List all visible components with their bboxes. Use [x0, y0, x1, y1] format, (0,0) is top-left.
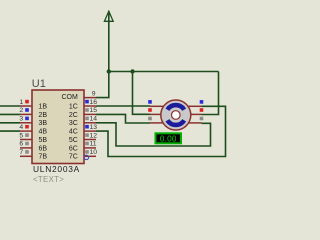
- motor angle display: [156, 133, 182, 143]
- pin 7B stub: [20, 155, 32, 157]
- wire 3C to motor lower-right: [96, 123, 211, 146]
- state square motor upper-left (blue): [148, 100, 152, 104]
- stepper motor M1 pin stub lower-left: [150, 122, 165, 124]
- svg-text:5C: 5C: [69, 137, 78, 144]
- state square motor middle-right (red): [200, 108, 204, 112]
- pin 1C stub: [84, 105, 96, 107]
- wire 1C to motor upper-left: [96, 105, 150, 107]
- svg-text:3C: 3C: [69, 120, 78, 127]
- state square pin 12 (grey): [85, 133, 89, 137]
- pin COM stub: [84, 97, 96, 99]
- wire 4C to motor upper-right: [96, 106, 226, 156]
- wire rail to motor right center tap: [202, 72, 219, 115]
- svg-text:2B: 2B: [39, 112, 48, 119]
- state square input pin 6 (grey): [25, 142, 29, 146]
- state square input pin 1 (red): [25, 100, 29, 104]
- svg-text:1B: 1B: [39, 103, 48, 110]
- wire 2C to motor lower-left: [96, 114, 150, 123]
- svg-text:11: 11: [90, 141, 97, 148]
- state square input pin 2 (blue): [25, 108, 29, 112]
- pin 2C stub: [84, 113, 96, 115]
- state square pin 10 (grey): [85, 150, 89, 154]
- state square pin 13 (blue): [85, 125, 89, 129]
- chip U1 body: [32, 90, 84, 164]
- svg-text:4B: 4B: [39, 129, 48, 136]
- state square motor lower-left (grey): [148, 117, 152, 121]
- state square input pin 4 (red): [25, 125, 29, 129]
- svg-text:10: 10: [90, 149, 98, 156]
- svg-text:2C: 2C: [69, 112, 78, 119]
- node junction rail drop: [130, 69, 134, 73]
- svg-text:6: 6: [19, 141, 23, 148]
- stepper motor M1 pin stub lower-right: [187, 122, 202, 124]
- pin 3B stub: [20, 122, 32, 124]
- state square motor lower-right (grey): [200, 117, 204, 121]
- state square pin 14 (grey): [85, 117, 89, 121]
- svg-text:9: 9: [92, 90, 96, 97]
- pin 5C stub: [84, 139, 96, 141]
- stepper motor M1 pin stub upper-right: [187, 105, 202, 107]
- state square input pin 3 (blue): [25, 117, 29, 121]
- stepper motor M1 pin stub upper-left: [150, 105, 165, 107]
- pin 3C stub: [84, 122, 96, 124]
- svg-text:3B: 3B: [39, 120, 48, 127]
- svg-text:COM: COM: [61, 94, 78, 101]
- wire rail to motor left center tap: [133, 72, 151, 115]
- svg-text:2: 2: [19, 107, 23, 114]
- svg-text:6B: 6B: [39, 145, 48, 152]
- svg-text:1C: 1C: [69, 103, 78, 110]
- wire input 2: [0, 113, 20, 115]
- wire input 4: [0, 130, 20, 132]
- stepper motor coil arc bottom: [167, 120, 184, 125]
- svg-text:7C: 7C: [69, 154, 78, 161]
- svg-text:6C: 6C: [69, 145, 78, 152]
- wire COM to rail: [96, 72, 109, 98]
- state square input pin 7 (grey): [25, 150, 29, 154]
- svg-text:U1: U1: [32, 78, 46, 90]
- stepper motor M1 pin stub middle-right: [190, 113, 202, 115]
- stepper motor M1 body: [161, 100, 191, 130]
- wire top rail: [109, 71, 219, 73]
- pin 1B stub: [20, 105, 32, 107]
- svg-text:13: 13: [90, 124, 98, 131]
- state square pin 16 (blue): [85, 100, 89, 104]
- pin 5B stub: [20, 139, 32, 141]
- svg-text:12: 12: [90, 132, 98, 139]
- svg-text:16: 16: [90, 99, 98, 106]
- svg-text:0.00: 0.00: [160, 135, 177, 144]
- svg-text:5: 5: [19, 132, 23, 139]
- svg-text:ULN2003A: ULN2003A: [33, 164, 80, 174]
- pin 7C stub: [84, 155, 96, 157]
- pin 6C stub: [84, 147, 96, 149]
- stepper motor shaft: [172, 111, 181, 120]
- state square motor upper-right (blue): [200, 100, 204, 104]
- pin 7C dangling wire end circle: [84, 155, 88, 159]
- stepper motor coil arc top: [167, 105, 184, 110]
- wire input 3: [0, 122, 20, 124]
- svg-text:1: 1: [19, 99, 23, 106]
- pin 4B stub: [20, 130, 32, 132]
- node junction power/COM: [107, 69, 111, 73]
- wire input 1: [0, 105, 20, 107]
- state square motor middle-left (red): [148, 108, 152, 112]
- wire power vertical: [108, 11, 110, 72]
- pin 6B stub: [20, 147, 32, 149]
- svg-text:<TEXT>: <TEXT>: [33, 175, 64, 184]
- svg-text:5B: 5B: [39, 137, 48, 144]
- svg-text:4: 4: [19, 124, 23, 131]
- state square input pin 5 (grey): [25, 133, 29, 137]
- stepper motor M1 pin stub middle-left: [150, 113, 162, 115]
- svg-text:3: 3: [19, 116, 23, 123]
- svg-text:14: 14: [90, 116, 98, 123]
- pin 4C stub: [84, 130, 96, 132]
- state square pin 15 (grey): [85, 108, 89, 112]
- pin 2B stub: [20, 113, 32, 115]
- svg-text:15: 15: [90, 107, 98, 114]
- svg-text:7B: 7B: [39, 154, 48, 161]
- power symbol: [104, 11, 113, 21]
- state square pin 11 (grey): [85, 142, 89, 146]
- svg-text:7: 7: [19, 149, 23, 156]
- svg-text:4C: 4C: [69, 129, 78, 136]
